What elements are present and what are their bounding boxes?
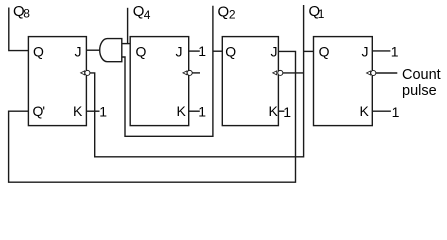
svg-text:J: J <box>75 43 82 59</box>
svg-text:J: J <box>362 43 369 59</box>
svg-text:K: K <box>269 103 279 119</box>
svg-text:1: 1 <box>99 104 107 120</box>
svg-text:1: 1 <box>318 7 325 21</box>
svg-text:Q: Q <box>136 43 147 59</box>
svg-text:Count: Count <box>402 67 441 83</box>
svg-text:': ' <box>42 103 45 119</box>
svg-text:Q: Q <box>319 43 330 59</box>
svg-text:Q: Q <box>218 3 230 20</box>
svg-text:1: 1 <box>391 43 399 59</box>
svg-text:J: J <box>271 43 278 59</box>
svg-text:K: K <box>360 103 370 119</box>
svg-text:1: 1 <box>198 43 206 59</box>
svg-text:2: 2 <box>229 8 236 22</box>
svg-text:1: 1 <box>392 104 400 120</box>
svg-text:1: 1 <box>198 104 206 120</box>
svg-text:1: 1 <box>283 104 291 120</box>
svg-text:K: K <box>177 103 187 119</box>
svg-text:pulse: pulse <box>402 83 437 99</box>
svg-text:Q: Q <box>225 43 236 59</box>
svg-text:8: 8 <box>23 7 30 21</box>
svg-text:Q: Q <box>33 43 44 59</box>
svg-text:J: J <box>176 43 183 59</box>
svg-text:4: 4 <box>144 8 151 22</box>
svg-text:K: K <box>73 103 83 119</box>
